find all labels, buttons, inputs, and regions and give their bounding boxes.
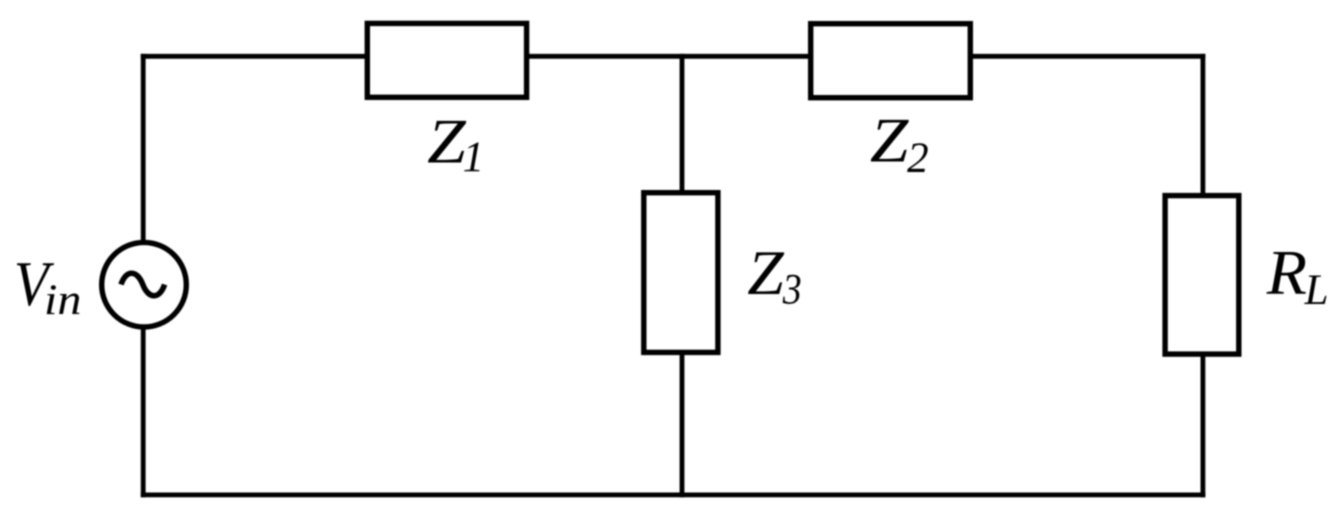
wire bottom rail: left corner to right corner xyxy=(141,492,1206,497)
svg-text:2: 2 xyxy=(907,135,929,182)
impedance Z1 (series box, top left) xyxy=(367,23,526,97)
load resistor RL (shunt box, right) xyxy=(1165,196,1239,355)
label Z1 xyxy=(427,107,484,181)
svg-text:Z: Z xyxy=(747,238,784,309)
svg-text:1: 1 xyxy=(463,134,485,181)
wire middle branch lower: Z3 bottom pin down to bottom rail junction xyxy=(680,352,685,497)
label Z2 xyxy=(870,106,929,182)
svg-text:R: R xyxy=(1266,238,1307,309)
wire left branch upper: top corner down to Vin source top xyxy=(141,54,146,241)
svg-text:in: in xyxy=(44,275,81,323)
AC voltage source Vin (circle with sine) xyxy=(102,242,187,327)
label RL xyxy=(1266,238,1329,314)
svg-text:Z: Z xyxy=(870,106,909,176)
wire right branch upper: top-right corner down to RL top pin xyxy=(1201,54,1206,197)
svg-text:Z: Z xyxy=(427,107,467,177)
wire top segment: Vin node to Z1 left pin xyxy=(141,54,367,59)
wire top segment: Z1 right pin to Z2 left pin xyxy=(527,54,811,59)
label Vin xyxy=(14,249,82,323)
label Z3 xyxy=(747,238,801,313)
wire right branch lower: RL bottom pin down to bottom-right corner xyxy=(1201,353,1206,497)
svg-text:L: L xyxy=(1304,267,1329,314)
impedance Z3 (shunt box, middle) xyxy=(644,193,718,353)
impedance Z2 (series box, top right) xyxy=(811,24,971,98)
wire left branch lower: Vin source bottom down to bottom rail xyxy=(141,329,146,498)
wire top segment: Z2 right pin to RL branch corner xyxy=(971,54,1206,59)
svg-text:3: 3 xyxy=(782,265,802,313)
wire middle branch upper: top rail junction down to Z3 top pin xyxy=(680,54,685,195)
